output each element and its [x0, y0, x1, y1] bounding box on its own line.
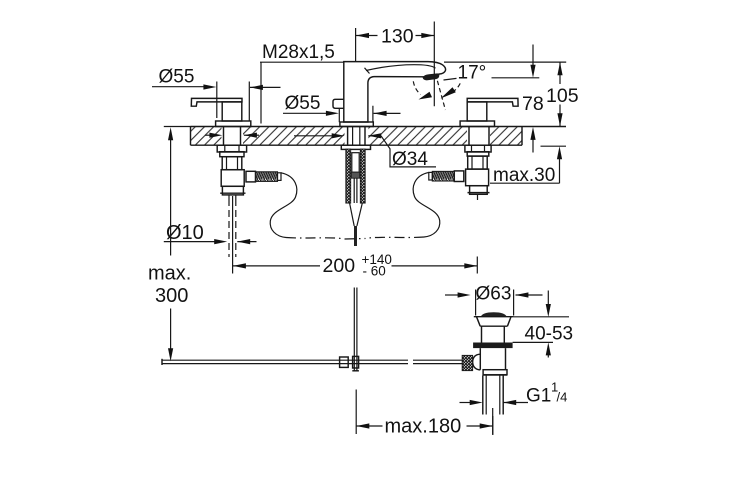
svg-text:40-53: 40-53: [525, 324, 574, 345]
svg-text:Ø10: Ø10: [166, 222, 204, 244]
svg-text:M28x1,5: M28x1,5: [262, 42, 335, 63]
svg-text:- 60: - 60: [363, 264, 386, 279]
svg-text:105: 105: [546, 85, 579, 107]
svg-text:78: 78: [522, 93, 544, 115]
svg-text:Ø34: Ø34: [392, 149, 428, 170]
svg-text:Ø55: Ø55: [159, 67, 195, 88]
svg-text:max.180: max.180: [385, 416, 462, 438]
svg-text:/4: /4: [557, 390, 568, 405]
svg-text:200: 200: [323, 255, 356, 277]
svg-text:Ø55: Ø55: [285, 93, 321, 114]
svg-text:300: 300: [155, 285, 188, 307]
svg-text:G1: G1: [526, 386, 551, 407]
svg-text:17°: 17°: [458, 63, 487, 84]
svg-text:max.: max.: [148, 263, 191, 285]
svg-text:130: 130: [381, 26, 414, 48]
svg-text:max.30: max.30: [493, 165, 555, 186]
svg-text:Ø63: Ø63: [476, 284, 512, 305]
